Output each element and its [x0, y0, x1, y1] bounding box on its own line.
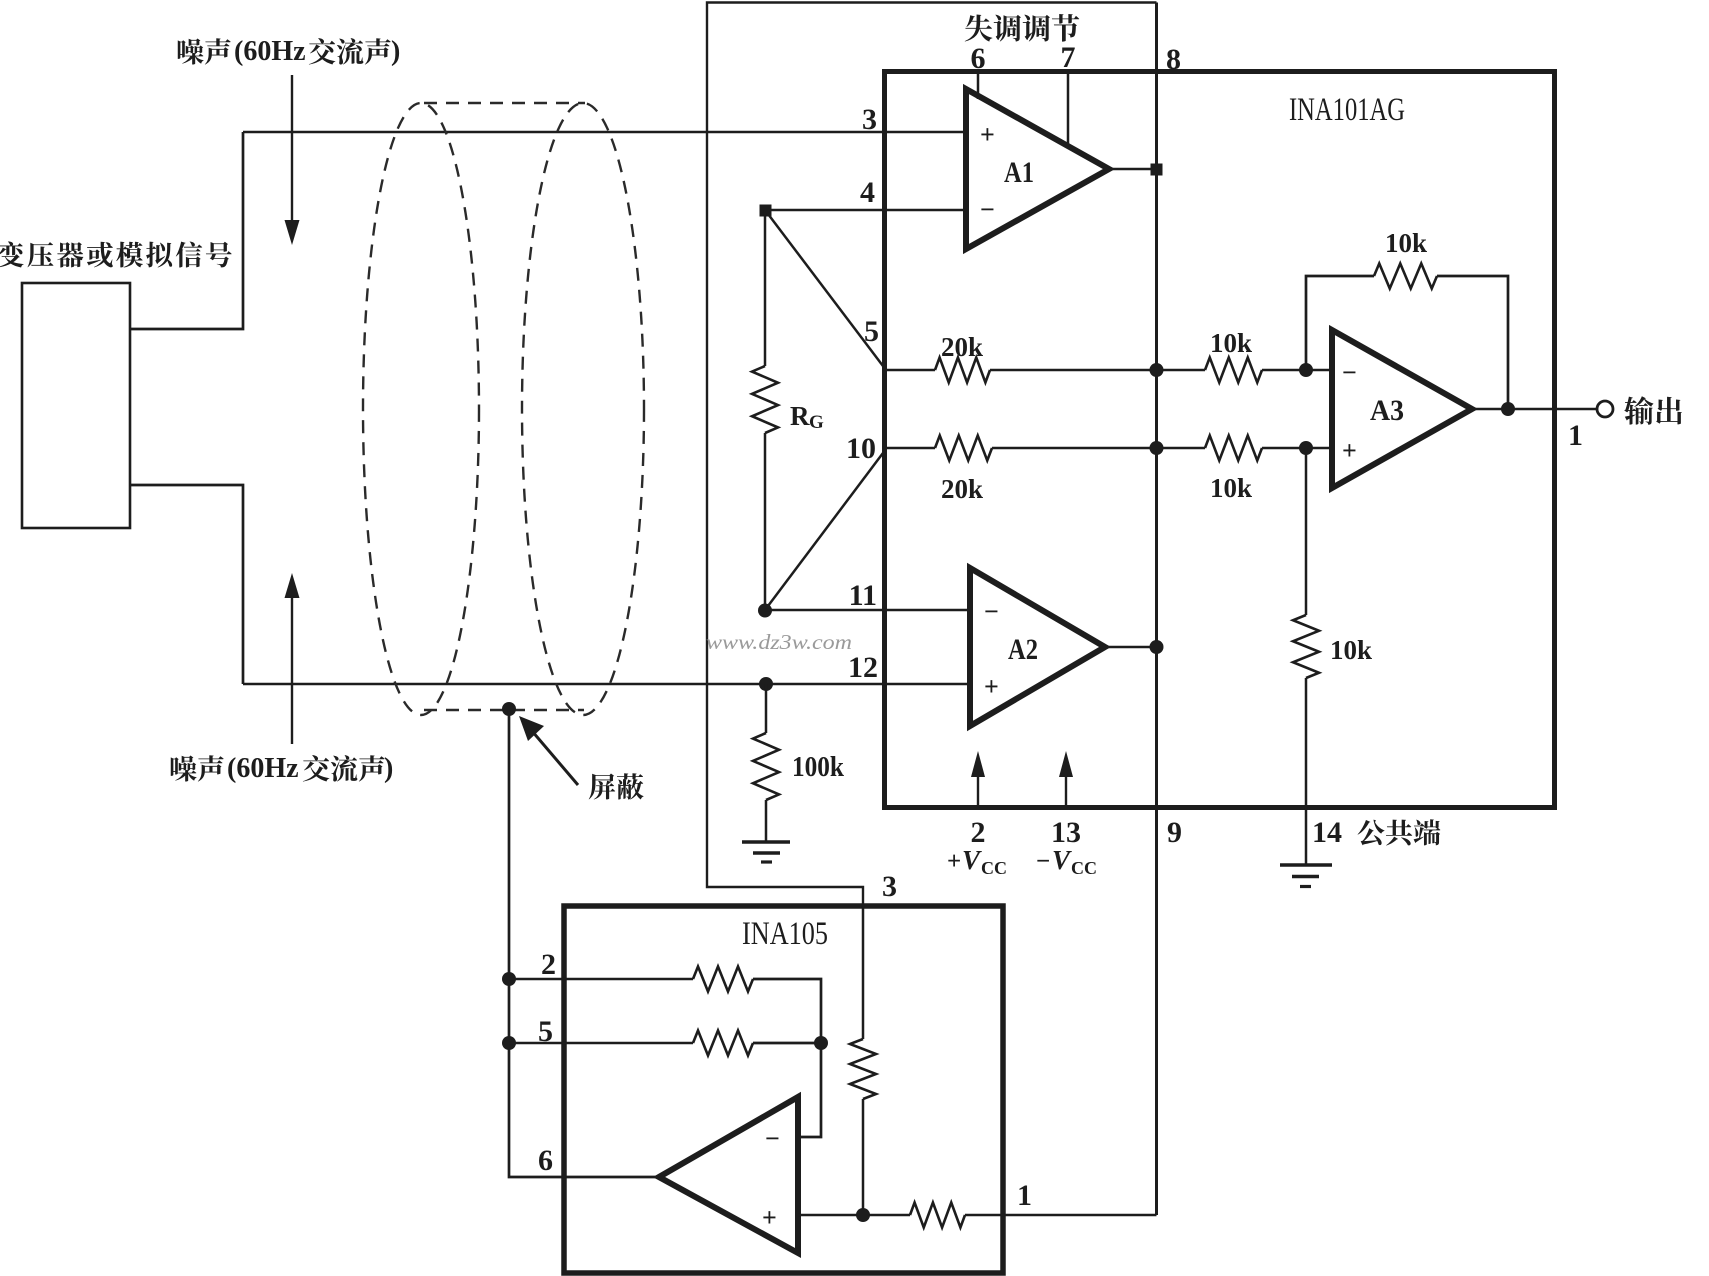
wire pin2 resistor to corner [753, 979, 821, 1043]
svg-text:8: 8 [1166, 43, 1181, 76]
cable shield ellipse right [522, 103, 644, 715]
node pin5 tap [502, 1036, 516, 1050]
wire pin12 (+in A2) from source bottom [243, 683, 970, 686]
wire pin3 lead INA105 [862, 906, 865, 1039]
resistor INA105 lower [693, 1031, 753, 1056]
wire pin3 resistor down [862, 1099, 865, 1215]
op-amp INA105 buffer [659, 1097, 798, 1253]
wire 20k to 10k lower [992, 447, 1205, 450]
svg-text:CC: CC [981, 858, 1007, 878]
svg-text:10: 10 [846, 432, 876, 465]
node pin2 tap [502, 972, 516, 986]
resistor 10k upper [1205, 358, 1262, 383]
resistor INA105 upper [693, 967, 753, 992]
svg-text:−: − [1036, 848, 1050, 875]
wire A3 feedback right [1437, 276, 1508, 409]
svg-text:V: V [962, 845, 982, 875]
op-amp A1 [966, 89, 1109, 249]
pin 13 -Vcc arrow [1059, 751, 1073, 777]
resistor INA105 output [910, 1203, 965, 1228]
wire pin5 lead [886, 369, 935, 372]
pin 2 +Vcc arrow [971, 751, 985, 777]
svg-text:+: + [1342, 436, 1357, 465]
node A2 out junction [1150, 640, 1164, 654]
wire A1 output [1109, 168, 1157, 171]
svg-text:A2: A2 [1008, 633, 1038, 666]
svg-text:10k: 10k [1330, 635, 1372, 665]
pin 6 stub [977, 74, 980, 99]
label common terminal 公共端 [1358, 819, 1441, 845]
wire 20k to 10k upper [990, 369, 1205, 372]
label source 变压器或模拟信号 [0, 241, 232, 267]
node upper mid junction [1150, 363, 1164, 377]
terminal output circle [1597, 401, 1613, 417]
svg-text:): ) [391, 36, 400, 67]
wire source bottom stub [130, 485, 243, 684]
svg-text:10k: 10k [1210, 328, 1252, 358]
cable shield bottom dashed line [424, 709, 584, 711]
svg-text:2: 2 [541, 948, 556, 981]
svg-text:−: − [1342, 358, 1357, 387]
wire diagonal node11 to pin10 [765, 449, 886, 610]
label shield 屏蔽 [589, 773, 644, 799]
node A3 -in junction [1299, 363, 1313, 377]
arrow noise top [291, 75, 293, 224]
svg-text:3: 3 [882, 870, 897, 903]
svg-text:A1: A1 [1004, 156, 1034, 189]
svg-text:10k: 10k [1385, 228, 1427, 258]
cable shield top dashed line [424, 102, 585, 104]
IC box INA105 [564, 906, 1003, 1273]
op-amp A3 [1332, 330, 1472, 488]
svg-text:A3: A3 [1370, 394, 1404, 427]
label output 输出 [1624, 396, 1682, 425]
resistor 100k [753, 733, 779, 800]
wire shield down [509, 710, 659, 1177]
node RG bottom [758, 604, 772, 618]
wire pin8-pin9 vertical net [1155, 3, 1158, 1216]
wire A3 feedback left [1306, 276, 1374, 370]
wire A2 output [1105, 646, 1157, 649]
svg-text:4: 4 [860, 176, 875, 209]
node 100k top junction [759, 677, 773, 691]
svg-text:6: 6 [538, 1144, 553, 1177]
svg-text:www.dz3w.com: www.dz3w.com [706, 630, 852, 654]
svg-text:+: + [762, 1203, 777, 1232]
svg-text:6: 6 [971, 42, 986, 75]
svg-text:1: 1 [1568, 419, 1583, 452]
svg-text:(60Hz: (60Hz [234, 36, 306, 67]
svg-text:12: 12 [848, 651, 878, 684]
svg-text:14: 14 [1312, 816, 1342, 849]
svg-text:R: R [790, 401, 810, 431]
wire RG top lead [764, 210, 767, 366]
node RG top [760, 205, 772, 217]
wire +in to node [798, 1214, 910, 1217]
wire pin11 (-in A2) [765, 609, 970, 612]
svg-text:10k: 10k [1210, 473, 1252, 503]
resistor 10k lower [1205, 436, 1262, 461]
wire guard loop from INA105 pin3 up-left-across to pin8 corner [707, 3, 1157, 907]
svg-text:INA101AG: INA101AG [1289, 92, 1405, 128]
svg-text:9: 9 [1167, 816, 1182, 849]
svg-text:V: V [1052, 845, 1072, 875]
node lower mid junction [1150, 441, 1164, 455]
resistor 20k upper [935, 358, 990, 383]
pin 7 stub [1067, 74, 1070, 147]
label noise bottom 噪声(60Hz交流声) [171, 755, 224, 781]
svg-text:−: − [984, 597, 999, 626]
svg-text:11: 11 [849, 579, 877, 612]
svg-text:−: − [980, 195, 995, 224]
arrow noise bottom [285, 573, 300, 598]
source box transformer/analog signal [22, 283, 130, 528]
cable shield ellipse left [363, 103, 479, 715]
wire 10k to A3 -in [1262, 369, 1332, 372]
wire 10k-gnd top lead [1305, 448, 1308, 615]
wire pin4 (-in A1) [765, 209, 966, 212]
wire diagonal node4 to pin5 [765, 210, 886, 370]
svg-text:): ) [384, 753, 393, 784]
resistor INA105 vertical [850, 1039, 876, 1099]
wire A3 output [1472, 408, 1596, 411]
svg-text:20k: 20k [941, 474, 983, 504]
svg-text:+: + [984, 672, 999, 701]
resistor 20k lower [935, 436, 992, 461]
svg-text:7: 7 [1061, 41, 1076, 74]
resistor RG [752, 366, 778, 433]
wire pin5 resistor to -in [753, 1043, 821, 1137]
wire 100k top lead [765, 684, 768, 733]
resistor 10k to ground [1293, 615, 1319, 678]
svg-text:CC: CC [1071, 858, 1097, 878]
node shield tap [502, 702, 516, 716]
op-amp A2 [970, 568, 1105, 726]
label offset-adjust 失调调节 [965, 14, 1079, 42]
ground 100k [742, 840, 790, 844]
svg-text:INA105: INA105 [742, 916, 828, 952]
svg-text:+: + [947, 848, 961, 875]
ground common [1280, 863, 1332, 867]
wire pin3 (+in A1) from source top [243, 131, 966, 134]
wire pin5 lead [509, 1042, 693, 1045]
label noise top 噪声(60Hz交流声) [178, 38, 231, 64]
wire 10k to A3 +in [1262, 447, 1332, 450]
node A3 out junction [1501, 402, 1515, 416]
wire RG bottom lead [764, 433, 767, 610]
node A1 out junction [1151, 164, 1163, 176]
wire source top stub [130, 132, 243, 329]
svg-text:+: + [980, 120, 995, 149]
svg-text:5: 5 [864, 315, 879, 348]
node A3 +in junction [1299, 441, 1313, 455]
wire 100k bottom lead [765, 800, 768, 841]
node INA105 +in junction [856, 1208, 870, 1222]
svg-text:G: G [809, 412, 824, 433]
svg-text:100k: 100k [792, 752, 844, 783]
node INA105 resistor junction [814, 1036, 828, 1050]
wire pin2 lead [509, 978, 693, 981]
svg-text:20k: 20k [941, 332, 983, 362]
op-amp IC box U1 INA101AG [885, 72, 1555, 808]
svg-text:1: 1 [1017, 1179, 1032, 1212]
wire 10k-gnd bottom lead [1305, 678, 1308, 864]
wire INA105 pin1 to pin9 net [965, 1214, 1157, 1217]
arrow to shield [532, 731, 578, 785]
wire pin10 lead [886, 447, 935, 450]
svg-text:(60Hz: (60Hz [227, 753, 299, 784]
svg-text:−: − [765, 1124, 780, 1153]
resistor 10k feedback [1374, 264, 1437, 289]
